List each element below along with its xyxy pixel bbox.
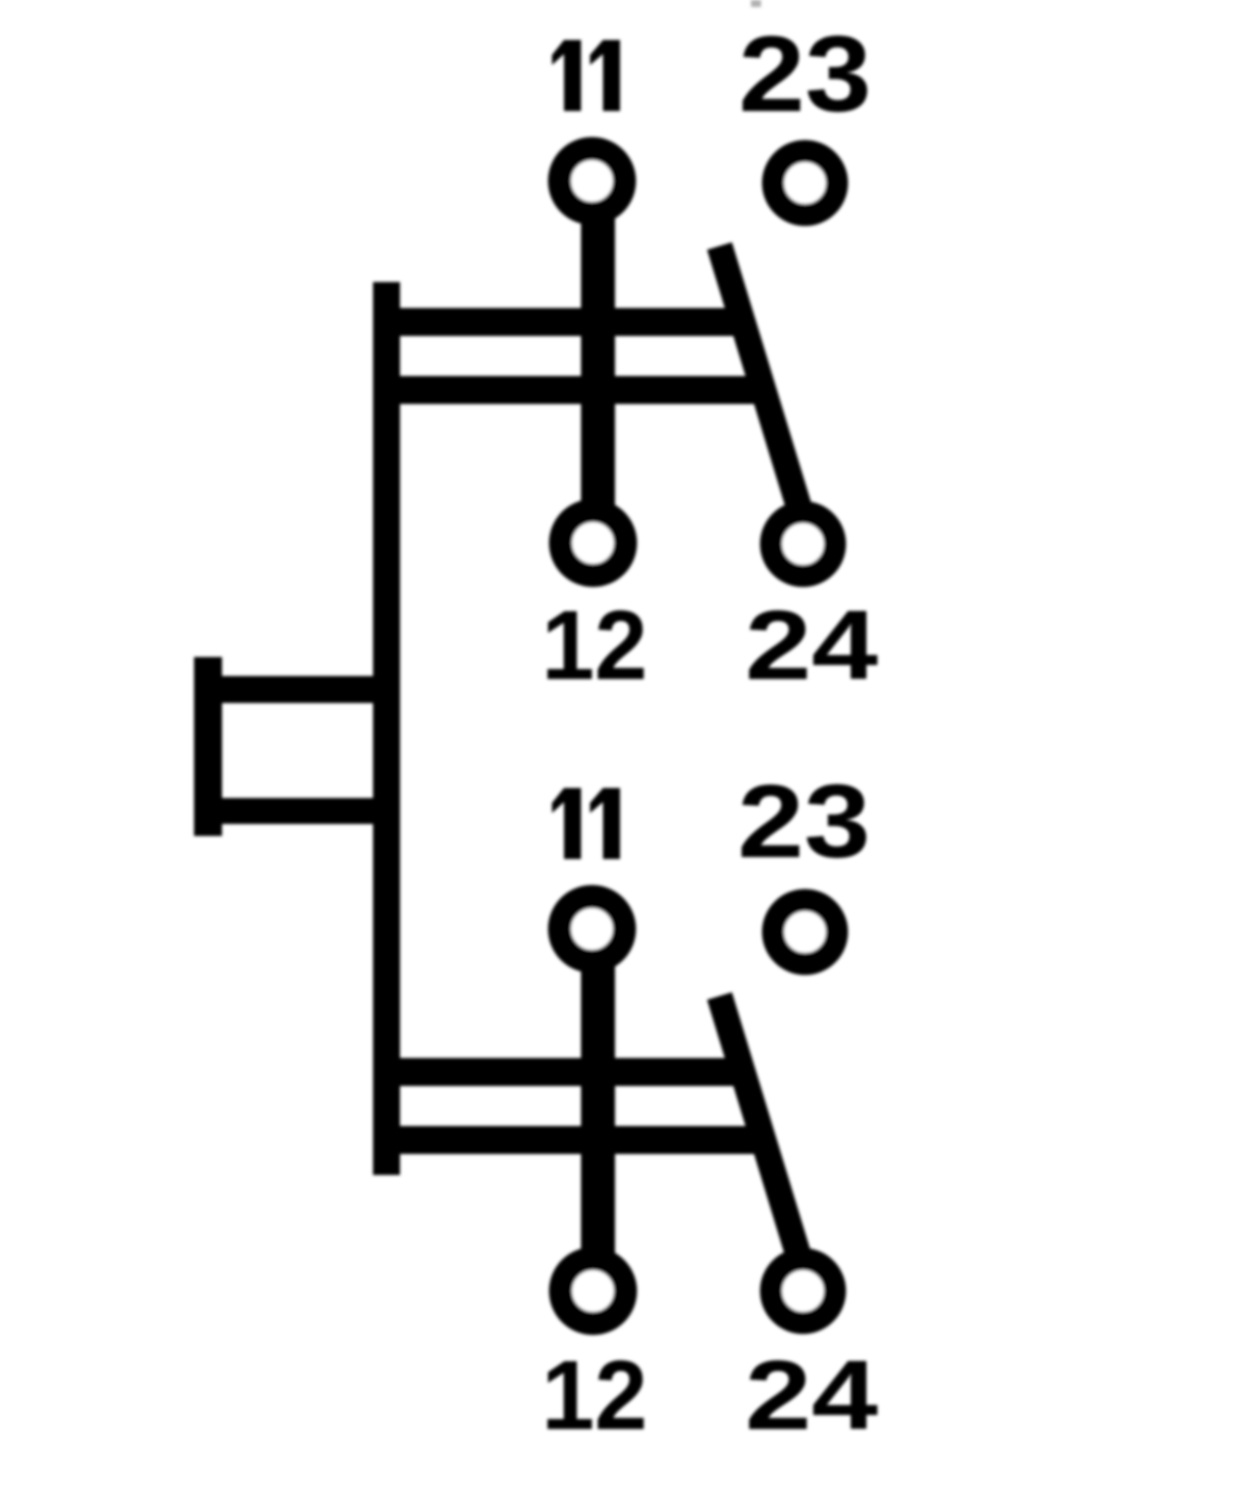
svg-text:23: 23 <box>739 13 872 134</box>
pin label 11 (contact block 1) <box>552 40 620 111</box>
mechanical linkage bar (vertical actuator shaft) <box>373 282 400 1175</box>
terminal 23 (contact block 2) <box>773 900 837 964</box>
svg-text:12: 12 <box>542 590 648 700</box>
pin label 11 (contact block 2) <box>552 788 620 859</box>
terminal 11 (contact block 2) <box>560 897 625 962</box>
NO contact mover 23-24 (contact block 2) <box>720 996 803 1267</box>
linkage crossbar lower (contact block 2) <box>373 1126 772 1154</box>
terminal 12 (contact block 1) <box>561 511 626 576</box>
wire: NC contact bridge 11-12 (contact block 1) <box>581 181 615 543</box>
linkage crossbar upper (contact block 2) <box>373 1058 745 1086</box>
terminal 23 (contact block 1) <box>773 151 837 215</box>
svg-text:23: 23 <box>738 764 871 880</box>
linkage crossbar lower (contact block 1) <box>373 376 772 404</box>
NO contact mover 23-24 (contact block 1) <box>720 246 803 517</box>
terminal 11 (contact block 1) <box>560 149 625 214</box>
linkage crossbar upper (contact block 1) <box>373 308 745 336</box>
edge artifact dot above terminal 23 <box>751 0 761 7</box>
terminal 24 (contact block 2) <box>771 1259 835 1323</box>
svg-text:24: 24 <box>745 590 878 700</box>
svg-text:12: 12 <box>542 1340 648 1450</box>
terminal 12 (contact block 2) <box>561 1259 626 1324</box>
pushbutton actuator (plunger cap) <box>194 657 377 836</box>
svg-text:24: 24 <box>745 1340 878 1450</box>
terminal 24 (contact block 1) <box>771 512 835 576</box>
wire: NC contact bridge 11-12 (contact block 2) <box>581 929 615 1291</box>
